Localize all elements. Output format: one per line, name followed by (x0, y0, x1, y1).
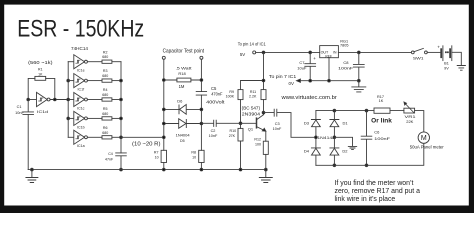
svg-text:link wire in it’s place: link wire in it’s place (335, 196, 396, 203)
svg-text:.5 Watt: .5 Watt (176, 65, 193, 70)
node junction base R9 R10 (239, 122, 242, 125)
ground symbol below C8 (352, 81, 366, 92)
node junction R12 ground (264, 168, 267, 171)
svg-text:Q1: Q1 (248, 127, 254, 132)
wire R4 to bus (112, 99, 121, 101)
resistor R7 10 (154, 150, 167, 169)
transistor Q1 2N3904 (242, 105, 266, 131)
node junction input bus (67, 117, 70, 120)
svg-text:680: 680 (102, 74, 108, 78)
svg-text:SW1: SW1 (413, 55, 425, 60)
node junction D1 top (333, 109, 336, 112)
wire ground rail (28, 169, 266, 171)
wire output IC1f (87, 80, 102, 82)
svg-text:10: 10 (155, 155, 159, 159)
node junction input bus (67, 79, 70, 82)
node junction drive (162, 136, 165, 139)
resistor R5 680 (102, 107, 112, 120)
wire meter bottom rail (316, 143, 424, 165)
node junction bridge left mid (315, 136, 318, 139)
svg-text:M: M (421, 135, 427, 142)
wire input stub IC1e (68, 61, 74, 63)
node junction D5 right (200, 122, 203, 125)
wire regulator IN to switch (338, 51, 411, 53)
svg-text:R1: R1 (38, 68, 43, 72)
inverter IC1a (74, 130, 88, 148)
wire inverter input bus (67, 62, 69, 138)
wire SW1 to battery (427, 51, 440, 53)
svg-text:7805: 7805 (340, 43, 348, 47)
wire meter top rail (316, 111, 424, 132)
svg-text:1K: 1K (38, 72, 43, 76)
wire right test line upper (200, 59, 202, 91)
svg-text:D2: D2 (342, 149, 348, 154)
resistor R1 (35, 68, 46, 81)
svg-text:B1: B1 (444, 62, 449, 66)
svg-text:5V: 5V (240, 52, 245, 57)
svg-text:10nF: 10nF (273, 127, 282, 131)
svg-text:D1: D1 (343, 120, 349, 125)
resistor R4 680 (102, 88, 112, 101)
svg-text:C5: C5 (211, 86, 217, 91)
inverter IC1d 74HC14 (37, 92, 51, 113)
inverter IC1b (74, 111, 88, 129)
svg-text:R12: R12 (254, 137, 261, 141)
svg-text:To pin 7 IC1: To pin 7 IC1 (269, 74, 297, 79)
node junction D6 left (162, 108, 165, 111)
svg-text:IC1d: IC1d (37, 110, 48, 114)
wire 5V rail (256, 51, 320, 53)
svg-text:R11: R11 (250, 90, 256, 94)
svg-text:R3: R3 (103, 69, 108, 73)
svg-text:C3: C3 (275, 122, 280, 126)
wire bridge mid to ground (334, 137, 352, 146)
wire input stub IC1a (68, 136, 74, 138)
svg-text:C4: C4 (108, 152, 113, 156)
diode D3 (304, 111, 321, 148)
svg-text:(560 ~1k): (560 ~1k) (28, 60, 53, 66)
svg-text:1M: 1M (179, 84, 185, 89)
wire REF pin (328, 58, 330, 81)
node junction R18 right (200, 79, 203, 82)
node junction C6 bottom (365, 164, 368, 167)
node junction C6 top (365, 109, 368, 112)
svg-text:22K: 22K (406, 119, 413, 124)
node test terminal left (162, 56, 165, 59)
voltage regulator RG1 7805 (320, 39, 349, 58)
svg-text:1K: 1K (379, 99, 384, 103)
node junction input bus (67, 98, 70, 101)
svg-text:To pin 14 of IC1: To pin 14 of IC1 (238, 41, 266, 46)
diode D4 (304, 148, 321, 165)
capacitor C8 100nF (338, 52, 364, 80)
svg-text:47nF: 47nF (105, 157, 114, 161)
svg-text:680: 680 (102, 93, 108, 97)
svg-text:100nF: 100nF (374, 136, 390, 141)
capacitor C6 100nF (361, 111, 391, 166)
inverter IC1c (74, 92, 88, 110)
node junction R7 ground (162, 168, 165, 171)
svg-text:IC1a: IC1a (77, 144, 85, 148)
wire R3 to bus (112, 80, 121, 82)
resistor R10 27K (229, 123, 243, 169)
svg-text:680: 680 (102, 55, 108, 59)
svg-text:C8: C8 (343, 60, 349, 65)
svg-text:C2: C2 (211, 129, 216, 133)
wire output IC1e (87, 61, 102, 63)
node junction C4 ground (120, 168, 123, 171)
node junction C8 bottom (357, 79, 360, 82)
svg-text:+: + (437, 45, 440, 50)
svg-text:IC1b: IC1b (77, 125, 85, 129)
svg-text:D4: D4 (304, 149, 310, 154)
wire R1 feedback left (28, 78, 35, 99)
svg-text:R7: R7 (154, 151, 159, 155)
svg-text:R4: R4 (103, 88, 108, 92)
svg-text:470nF: 470nF (211, 91, 223, 96)
svg-text:R8: R8 (191, 151, 196, 155)
node junction output bus (120, 98, 123, 101)
ground symbol battery (457, 66, 465, 71)
svg-text:2N3904: 2N3904 (242, 111, 261, 116)
svg-text:D6: D6 (177, 99, 183, 104)
resistor R9 100K (226, 90, 243, 100)
wire R9 to base (240, 100, 242, 124)
wire base (241, 122, 257, 124)
wire R1 feedback right (46, 78, 55, 99)
wire input stub IC1f (68, 80, 74, 82)
node junction R18 left (162, 79, 165, 82)
wire battery to ground (452, 52, 462, 65)
svg-text:If you find the meter won’t: If you find the meter won’t (335, 180, 414, 187)
svg-text:10nF: 10nF (209, 134, 218, 138)
battery B1 9V (437, 45, 452, 71)
node junction IC1d output feedback (53, 98, 56, 101)
wire IC1d output (50, 99, 68, 101)
node junction D6 right (200, 108, 203, 111)
node junction output bus (120, 117, 123, 120)
svg-text:74HC14: 74HC14 (71, 46, 89, 51)
svg-text:R18: R18 (178, 71, 186, 76)
svg-text:IN: IN (333, 51, 337, 55)
resistor R3 680 (102, 69, 112, 82)
node junction R11 top (262, 51, 265, 54)
svg-text:IC1c: IC1c (77, 106, 85, 110)
wire R5 to bus (112, 117, 121, 119)
resistor R6 680 (102, 126, 112, 139)
svg-text:ESR - 150KHz: ESR - 150KHz (17, 16, 144, 43)
node junction output bus (120, 136, 123, 139)
diode D2 (330, 148, 348, 165)
capacitor C3 10nF (264, 109, 316, 137)
capacitor C1 10nF (15, 100, 33, 170)
wire R6 to bus (112, 136, 121, 138)
capacitor C5 470nF 400Volt (196, 86, 225, 105)
potentiometer VR1 22K (404, 102, 417, 124)
ground symbol below R12 (259, 170, 272, 183)
capacitor C7 10uF (297, 52, 316, 80)
svg-text:50uA Panel meter: 50uA Panel meter (410, 145, 445, 150)
node junction bridge right mid (333, 136, 336, 139)
svg-text:www.virtuatec.com.br: www.virtuatec.com.br (280, 95, 336, 101)
diode D5 1N4004 (164, 119, 202, 144)
wire drive bus to test line (121, 136, 164, 138)
ground symbol bridge (348, 146, 356, 149)
svg-text:680: 680 (102, 112, 108, 116)
svg-text:R5: R5 (103, 107, 108, 111)
svg-text:10: 10 (192, 155, 196, 159)
svg-text:R10: R10 (230, 129, 237, 133)
svg-text:2.2K: 2.2K (249, 94, 257, 98)
wire IC1d input (28, 99, 36, 101)
svg-text:1N4004: 1N4004 (176, 133, 190, 137)
svg-text:1N4148: 1N4148 (317, 136, 335, 140)
wire output bus (120, 62, 122, 153)
wire input stub IC1c (68, 99, 74, 101)
svg-text:IC1e: IC1e (77, 69, 85, 73)
wire output IC1a (87, 136, 102, 138)
svg-text:680: 680 (102, 131, 108, 135)
capacitor C4 47nF (105, 152, 126, 169)
svg-text:Capacitor Test point: Capacitor Test point (163, 48, 205, 54)
svg-text:D5: D5 (180, 139, 185, 143)
wire R11 to collector (263, 100, 265, 115)
diode D6 (164, 99, 202, 115)
svg-text:(10 ~20 R): (10 ~20 R) (132, 142, 161, 148)
diode D1 (330, 111, 349, 148)
ground symbol left (26, 168, 38, 182)
node junction C7 top (309, 51, 312, 54)
capacitor C2 10nF (201, 120, 240, 138)
resistor R17 1K (374, 95, 390, 113)
wire left test line (163, 59, 165, 150)
resistor R2 680 (102, 50, 112, 63)
node junction R8 ground (200, 168, 203, 171)
node 5V terminal (253, 51, 256, 54)
node junction R10 ground (239, 168, 242, 171)
note text block (335, 180, 421, 203)
svg-text:100nF: 100nF (338, 65, 354, 70)
node junction R9 branch (262, 79, 265, 82)
wire input stub IC1b (68, 117, 74, 119)
svg-text:9V: 9V (444, 67, 449, 71)
node test terminal right (200, 56, 203, 59)
svg-text:+: + (313, 56, 316, 61)
wire R2 to bus (112, 61, 121, 63)
wire output IC1c (87, 99, 102, 101)
node junction REF bottom (328, 79, 331, 82)
wire emitter to R12 (265, 131, 267, 141)
svg-text:(BC 547): (BC 547) (242, 105, 261, 110)
node junction output bus (120, 79, 123, 82)
node junction C8 top (357, 51, 360, 54)
svg-text:R6: R6 (103, 126, 108, 130)
wire R9 branch (241, 52, 264, 89)
wire 0V rail with arrow (297, 79, 359, 82)
svg-text:100: 100 (255, 143, 261, 147)
svg-text:D3: D3 (304, 120, 310, 125)
node junction C7 bottom (309, 79, 312, 82)
resistor R11 2.2K (249, 90, 266, 100)
switch SW1 (411, 48, 427, 60)
node junction D5 left (162, 122, 165, 125)
resistor R8 10 (191, 150, 204, 169)
node junction D2 bottom (333, 164, 336, 167)
wire right test line lower (200, 95, 202, 150)
node junction IC1d input (27, 98, 30, 101)
svg-text:R9: R9 (229, 90, 234, 94)
svg-text:C1: C1 (17, 105, 22, 109)
resistor R12 100 (254, 137, 268, 169)
svg-text:IC1f: IC1f (78, 88, 85, 92)
meter M 50uA panel meter (410, 132, 445, 150)
wire output IC1b (87, 117, 102, 119)
svg-text:400Volt: 400Volt (206, 99, 225, 104)
svg-text:27K: 27K (229, 134, 236, 138)
svg-text:0V: 0V (289, 81, 294, 86)
svg-text:Or link: Or link (371, 119, 392, 125)
svg-text:zero, remove R17 and put a: zero, remove R17 and put a (335, 188, 421, 195)
node junction collector C3 (262, 111, 265, 114)
inverter IC1e (74, 55, 88, 73)
svg-text:R2: R2 (103, 50, 108, 54)
resistor R18 1M .5 Watt (164, 65, 202, 88)
svg-text:C6: C6 (374, 130, 380, 135)
inverter IC1f (74, 74, 88, 92)
svg-text:100K: 100K (226, 94, 235, 98)
